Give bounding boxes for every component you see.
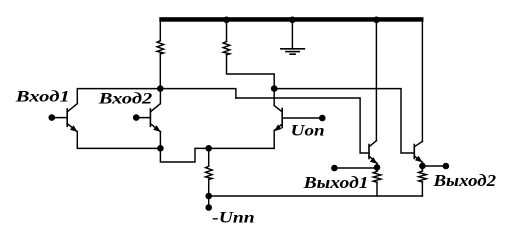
svg-text:Выход1: Выход1: [302, 173, 368, 192]
wire VT2 collector riser to N0: [159, 89, 161, 104]
input terminal Вход2: [133, 114, 140, 121]
bottom rail: [209, 195, 423, 197]
terminal -Upp: [208, 196, 210, 208]
node VT4 emitter: [374, 164, 381, 171]
wire first stage to VT4 base: [236, 98, 369, 153]
node tail R3 top: [205, 145, 212, 152]
terminal Uop: [319, 115, 326, 122]
transistor VT5: [414, 141, 422, 162]
terminal Выход2: [443, 163, 450, 170]
terminal Выход1: [331, 165, 338, 172]
wire N0 to step: [160, 89, 236, 98]
wire bus right end to VT5 collector: [421, 22, 423, 142]
resistor R4: [373, 167, 381, 196]
resistor R1: [157, 41, 164, 54]
wire VT4 emitter to node: [376, 164, 378, 168]
wire VT1 emitter drop: [77, 132, 160, 149]
wire tail jog: [160, 148, 208, 162]
transistor VT3: [274, 106, 282, 132]
node bus ground: [289, 17, 296, 24]
svg-text:Вход2: Вход2: [98, 91, 153, 108]
transistor VT2: [150, 104, 160, 132]
wire R1 bottom to node N0: [159, 54, 161, 89]
node N0: [157, 85, 164, 92]
node VT5 emitter: [419, 163, 426, 170]
resistor R3: [206, 148, 213, 196]
node N1: [271, 85, 278, 92]
wire VT3 collector riser to N1: [273, 89, 275, 106]
node -Upp: [205, 193, 212, 200]
wire VT5 emitter to node: [421, 162, 423, 166]
wire base VT2: [136, 117, 150, 119]
svg-text:Выход2: Выход2: [432, 171, 496, 190]
resistor R5: [419, 166, 427, 196]
wire bus to VT4 collector: [375, 22, 377, 141]
wire to terminal Выход2: [422, 165, 446, 167]
node bus VT4: [373, 17, 380, 24]
svg-text:Uоп: Uоп: [291, 122, 325, 139]
wire VT1 collector riser: [77, 89, 160, 104]
wire N1 to VT5 base: [274, 89, 414, 153]
wire R1 stem from bus: [159, 22, 161, 41]
transistor VT1: [67, 104, 77, 132]
wire to terminal Выход1: [334, 167, 377, 169]
ground: [281, 22, 305, 55]
wire R2 stem from bus: [226, 22, 228, 42]
wire base VT3: [282, 117, 322, 119]
svg-text:Вход1: Вход1: [15, 88, 70, 105]
wire base VT1: [52, 117, 67, 119]
svg-text:-Uпп: -Uпп: [212, 210, 255, 227]
wire R2 bottom jog to node N1: [227, 55, 275, 89]
resistor R2: [223, 42, 230, 55]
input terminal Вход1: [49, 114, 56, 121]
positive supply bus: [159, 17, 423, 22]
transistor VT4: [369, 141, 377, 164]
wire VT2 emitter drop: [159, 132, 161, 149]
node tail left: [157, 145, 164, 152]
node bus R2: [223, 17, 230, 24]
wire tail to VT3 emitter: [209, 131, 275, 149]
